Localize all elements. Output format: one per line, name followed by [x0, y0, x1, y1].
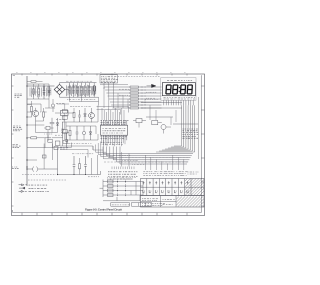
label loop values — [72, 153, 93, 155]
IC U1 pin labels lower band2 — [101, 142, 123, 144]
label Q1 value — [40, 111, 47, 113]
table header wide cell label — [188, 171, 199, 173]
transistor Q3 — [161, 125, 166, 130]
wire R11 leads — [133, 121, 146, 128]
label squiggle row K — [60, 146, 68, 148]
table grid column lines — [147, 179, 191, 196]
capacitor C15 — [61, 122, 64, 138]
border zone ticks bottom — [22, 213, 187, 216]
legend text 3 — [29, 191, 49, 193]
display DS1 box — [162, 83, 195, 96]
value labels above caps — [66, 80, 92, 82]
resistor R7 — [69, 130, 71, 135]
table hatched cells upper right — [185, 179, 204, 196]
svg-text:Figure 9-5: Control Panel Circ: Figure 9-5: Control Panel Circuit — [85, 209, 122, 212]
node dots loop bottom — [57, 174, 58, 175]
label text above display — [167, 79, 192, 81]
border zone ticks right — [202, 86, 205, 206]
note LINE FILTER label — [13, 125, 20, 127]
capacitor bank C1-C6 — [68, 83, 90, 98]
wire drops from label box — [104, 83, 114, 95]
bridge rectifier BR1 — [54, 84, 65, 94]
connector hook arcs J1 — [27, 167, 58, 172]
table column header labels — [143, 171, 148, 173]
wire mid-right verticals — [150, 105, 176, 125]
capacitor C12 — [78, 110, 81, 122]
IC U1 top pin comb — [102, 120, 127, 125]
table lower text left — [142, 198, 158, 200]
display DS1 digit 4 — [187, 85, 192, 94]
scan tone veil — [14, 76, 201, 212]
IC U1 bottom pin comb — [102, 135, 127, 140]
relay K1 small box — [42, 155, 46, 158]
resistor R8 block — [152, 121, 158, 125]
wire center loop rect — [58, 148, 101, 175]
note harness label — [13, 144, 18, 146]
connector J3 stub box — [132, 203, 152, 207]
table lower mid text — [163, 198, 175, 200]
left cluster texture — [30, 86, 51, 98]
wire bus verticals into table header — [145, 155, 184, 170]
drawing border outer frame — [12, 74, 205, 216]
switch S4 — [108, 194, 114, 197]
label box CONTROL PANEL PCB — [100, 75, 118, 83]
legend arrow symbol 1 — [19, 184, 28, 186]
resistor R11 block — [136, 119, 142, 123]
table lower mid cells — [141, 196, 177, 208]
wire left riser x44 — [27, 144, 53, 170]
wire rail stubs down — [70, 97, 99, 105]
legend arrow symbol 2 — [19, 187, 25, 189]
keypad row wires — [108, 182, 144, 196]
display pin leads — [164, 100, 193, 105]
capacitor C7 — [50, 118, 55, 129]
label specks upper-left — [31, 91, 40, 93]
wire bus cross verticals — [122, 152, 130, 167]
connector box row K — [54, 146, 58, 149]
switch S1 — [108, 180, 114, 183]
wire mini bus under label box — [100, 84, 128, 86]
capacitor C13 — [76, 126, 79, 140]
diode D1 — [48, 86, 51, 97]
electrolytic C11 — [65, 133, 68, 148]
wire keypad bottom loop — [103, 195, 140, 201]
resistor R4 — [43, 112, 45, 117]
small box PS1 — [46, 126, 50, 130]
diode D2 — [56, 118, 59, 130]
wire 140 rail — [66, 126, 98, 140]
display DS1 digit 2 — [173, 85, 178, 94]
label pin numbers below display — [164, 96, 196, 98]
wire AC feed to bridge — [27, 85, 55, 87]
wire loop vertical 91.5 — [91, 158, 93, 175]
wire main left vertical bus — [26, 76, 28, 186]
wire mid-left links — [27, 138, 63, 148]
wire arrow stub — [147, 85, 152, 87]
label keypad header text — [107, 176, 136, 178]
wire stack ties — [57, 104, 69, 140]
label specks on bus lines — [113, 155, 130, 157]
display DS1 digit 1 — [166, 85, 171, 94]
signal arrow marker — [152, 84, 156, 87]
resistor R12 — [31, 106, 33, 111]
wire feed horizontals — [97, 107, 129, 115]
wire horizontal links mid-right — [141, 103, 198, 125]
transistor Q2 — [89, 113, 95, 119]
note AC INPUT label — [15, 93, 22, 95]
table cell marks row1 — [143, 181, 189, 184]
small circle device Q4 — [82, 131, 85, 134]
label cluster values — [70, 106, 91, 108]
drawing border inner frame right and bottom — [13, 75, 202, 212]
inductor L1 box — [48, 139, 52, 142]
wire keypad right drops — [131, 182, 143, 196]
resistor R9 — [79, 164, 81, 169]
wire display column bundle — [182, 105, 195, 152]
diode D5 — [89, 126, 92, 140]
wire bus dashed overlays — [104, 158, 190, 162]
wire corner bundle center — [93, 140, 117, 159]
label wire tags over bundle row1 — [183, 128, 198, 130]
switch S3 — [108, 189, 114, 192]
keypad left bus — [100, 180, 108, 198]
value labels below caps — [67, 99, 95, 101]
switch S2 — [108, 185, 114, 188]
capacitor C10 — [84, 156, 87, 175]
wire 126 rail — [66, 122, 96, 134]
note connector label — [12, 166, 17, 168]
wire dashed boundary bottom-left — [28, 179, 66, 181]
border zone ticks left — [12, 86, 14, 206]
legend arrow symbol 3 — [19, 190, 27, 192]
wire IC bottom pin extensions — [102, 140, 125, 146]
wire bridge rails — [60, 83, 99, 98]
resistor R3 — [38, 89, 40, 94]
resistor network RN1 — [130, 86, 139, 109]
table cell marks row2 — [143, 190, 189, 193]
filter bank dense texture — [67, 85, 96, 97]
resistor R6 — [73, 112, 75, 117]
resistor R1 — [93, 86, 95, 91]
wire upper-left rails — [27, 84, 49, 99]
legend text 2 — [29, 187, 47, 189]
diode D4 — [84, 108, 87, 122]
resistor R5 — [31, 137, 37, 139]
node dots lower bus — [26, 159, 27, 160]
wire loop vertical 97.5 — [97, 155, 99, 175]
display outer faint box — [161, 78, 196, 101]
wire R12 ties — [27, 101, 32, 112]
IC U1 body — [101, 125, 128, 135]
resistor R2 — [33, 89, 35, 94]
display DS1 colon — [179, 87, 180, 88]
wire fan verticals — [104, 87, 128, 108]
wire 122 rail — [62, 106, 98, 123]
IC U1 text — [103, 128, 126, 130]
wire row 129-133 — [36, 129, 70, 133]
IC U1 pin labels top band — [101, 120, 129, 122]
table grid outline — [141, 179, 205, 196]
label GA text box — [111, 203, 130, 207]
border zone ticks top — [22, 74, 187, 76]
varistor RV1 — [51, 104, 54, 107]
legend text 1 — [29, 184, 48, 186]
transistor Q1 — [32, 110, 38, 116]
wire dashed pcb boundary top — [118, 76, 161, 78]
wire bundle corner bends — [156, 146, 195, 152]
table lower section box — [141, 196, 205, 208]
IC U1 pin labels bottom band — [101, 136, 127, 138]
label D3 value — [44, 133, 52, 135]
keypad mid dashed verticals — [117, 180, 119, 198]
wire short comb above text block — [112, 167, 134, 170]
table grid row line — [141, 186, 205, 188]
keypad dots — [117, 181, 118, 182]
component stack right column — [62, 110, 67, 113]
diode D6 box — [55, 141, 60, 145]
label specks row 142 — [68, 143, 91, 145]
wire 147 tie — [52, 143, 71, 148]
fuse F1 — [31, 81, 36, 83]
display DS1 digit 3 — [180, 85, 185, 94]
wire base network — [27, 117, 44, 133]
label box text lines — [101, 76, 116, 78]
table lower text left2 — [142, 203, 165, 205]
wire signal fan horizontals — [104, 87, 162, 108]
zone label marks above top edge — [16, 72, 186, 74]
wire bus nested corners from IC — [103, 147, 193, 165]
wire right edge return — [197, 97, 199, 159]
wire PS1 leads — [44, 128, 54, 138]
wire link rows K — [60, 146, 93, 158]
wire dashed segment 2 — [22, 174, 56, 176]
label specks loop right — [88, 176, 99, 178]
node junctions on left bus — [26, 85, 27, 86]
label wire tags over bundle row2 — [183, 134, 199, 136]
wire IC top feeds — [102, 108, 124, 120]
label specks between fan lines — [119, 88, 129, 90]
table hatched area lower right — [176, 197, 204, 208]
capacitor C8 — [43, 84, 46, 99]
wire tie 102-108 — [27, 99, 55, 112]
RN1 pin speck column — [141, 87, 146, 108]
component list text block — [108, 171, 137, 173]
wire Q3 leads — [158, 123, 171, 134]
dashed boundary segment right — [145, 100, 159, 105]
capacitor C9 — [73, 156, 76, 175]
wire U2 leads — [55, 113, 74, 121]
label stack specks — [56, 103, 65, 105]
regulator U2 box — [61, 111, 69, 116]
zener D3 — [45, 135, 51, 141]
